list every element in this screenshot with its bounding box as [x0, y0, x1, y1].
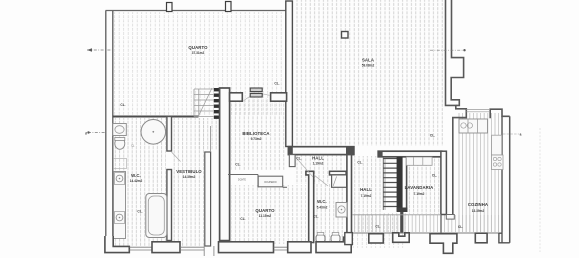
chase white foot	[446, 215, 454, 220]
svg-text:CL.: CL.	[430, 134, 435, 138]
quarto11 door leaf	[296, 157, 314, 177]
svg-text:HALL: HALL	[312, 156, 324, 161]
bottom window B	[180, 247, 204, 250]
svg-text:CL.: CL.	[274, 82, 279, 86]
svg-text:d: d	[85, 132, 87, 136]
lavandaria bottom line	[352, 214, 441, 216]
svg-text:CL.: CL.	[120, 103, 125, 107]
wc543 right wall (white core band)	[347, 155, 352, 233]
svg-text:CL.: CL.	[240, 217, 245, 221]
section line right	[430, 49, 465, 51]
terrace pier 1	[369, 234, 384, 243]
terrace pier 4	[475, 233, 487, 243]
bathroom top wall	[113, 116, 199, 118]
stairs lower dark band	[397, 157, 403, 212]
floor texture cozinha	[457, 113, 503, 232]
bathtub	[146, 194, 167, 238]
biblioteca top wall bar A (white core)	[230, 93, 243, 101]
bottom pier C	[219, 242, 274, 253]
svg-text:HALL: HALL	[360, 187, 372, 192]
svg-text:LAVANDARIA: LAVANDARIA	[405, 185, 434, 190]
svg-text:59.08m2: 59.08m2	[362, 64, 375, 68]
wc543 sink	[336, 203, 347, 218]
bottom pier D	[288, 242, 311, 253]
bathroom big round basin	[141, 120, 166, 145]
floor texture below stairs	[383, 213, 406, 232]
floor texture hall119 band	[294, 155, 345, 184]
stairs wall stem to pier	[400, 212, 403, 233]
bathroom/vestibulo wall (white core, door gap)	[167, 117, 172, 152]
svg-text:7.19m2: 7.19m2	[361, 194, 372, 198]
svg-text:CL.: CL.	[432, 174, 437, 178]
svg-text:QUARTO: QUARTO	[188, 45, 208, 50]
wc543 toilet and bidet	[316, 235, 325, 243]
wc543 shower	[332, 175, 347, 187]
vestibulo right wall (double)	[205, 152, 211, 246]
section line left top	[87, 49, 112, 51]
svg-text:COZINHA: COZINHA	[468, 202, 488, 207]
corridor top wall right (white core with cap)	[378, 151, 442, 157]
stairs upper diagonal	[198, 88, 212, 117]
lavandaria right wall (white core band)	[441, 151, 447, 214]
kitchen counters	[459, 119, 488, 133]
kitchen top-right wall lines	[490, 109, 510, 118]
floor texture corridor to biblioteca	[198, 118, 218, 150]
svg-text:a: a	[520, 133, 522, 137]
floor texture wc543	[313, 184, 346, 244]
floor texture hall corridor	[352, 156, 383, 232]
svg-text:11.15m2: 11.15m2	[259, 214, 272, 218]
svg-text:QUARTO: QUARTO	[255, 208, 275, 213]
svg-text:SALA: SALA	[362, 58, 374, 63]
svg-text:BIBLIOTECA: BIBLIOTECA	[242, 131, 269, 136]
top wall post 2	[226, 2, 232, 12]
hall119 small closet box	[289, 155, 295, 167]
svg-text:CL.: CL.	[458, 225, 463, 229]
svg-text:W.C.: W.C.	[131, 173, 141, 178]
wall QUARTO/SALA (double with white core)	[286, 1, 293, 147]
SALA right wall and kitchen chase (thin lines)	[446, 0, 467, 219]
svg-text:CL.: CL.	[296, 157, 301, 161]
wc543 door leaf	[314, 175, 328, 186]
svg-text:9.73m2: 9.73m2	[251, 137, 262, 141]
floor texture vestibulo	[172, 118, 204, 246]
bathroom toilet	[115, 138, 125, 150]
bathroom left fixture column	[114, 172, 126, 239]
svg-text:14.42m2: 14.42m2	[130, 179, 143, 183]
floor texture lavandaria	[407, 157, 440, 214]
kitchen tall cabinet column	[492, 135, 502, 155]
svg-text:37.31m2: 37.31m2	[192, 51, 205, 55]
quarto11/wc wall T pier (white core)	[306, 171, 314, 242]
bottom window A	[129, 247, 152, 250]
bottom window C	[274, 247, 288, 250]
svg-text:1.19m2: 1.19m2	[313, 162, 324, 166]
floor texture biblioteca	[231, 98, 285, 170]
bottom pier B	[152, 242, 180, 253]
leader a right	[503, 133, 519, 135]
svg-text:CL.: CL.	[235, 163, 240, 167]
top wall post 1	[167, 3, 173, 12]
svg-text:5.43m2: 5.43m2	[317, 206, 328, 210]
biblioteca left wall (white core band)	[220, 88, 230, 241]
stairs upper step notches on wall	[214, 88, 220, 119]
biblioteca top wall bar B (white core)	[271, 93, 287, 101]
bathroom sink top-left	[113, 124, 127, 136]
wc543 top wall bar (white core)	[330, 171, 347, 175]
wc543 wall white foot	[345, 233, 353, 245]
floor texture terrace below line	[352, 233, 404, 248]
entrance door jambs	[204, 246, 214, 256]
svg-text:CL.: CL.	[375, 225, 380, 229]
floor texture QUARTO big	[114, 12, 284, 115]
floor texture terrace bottom	[352, 215, 504, 232]
bathroom small cabinet	[114, 159, 127, 169]
section line left d	[88, 132, 106, 134]
floor texture SALA	[294, 0, 444, 146]
terrace pier 2	[393, 233, 410, 243]
svg-text:W.C.: W.C.	[317, 199, 327, 204]
roupeiro closet box	[258, 176, 283, 187]
svg-text:13.39m2: 13.39m2	[472, 209, 485, 213]
kitchen door thin lines	[466, 110, 490, 112]
svg-text:DCHTE: DCHTE	[238, 180, 246, 182]
stairs lower right: rails	[382, 157, 384, 210]
corridor wall left bar (white core with caps)	[288, 147, 354, 155]
kitchen right wall (double)	[501, 116, 503, 243]
svg-text:14.39m2: 14.39m2	[183, 175, 196, 179]
svg-text:CL.: CL.	[357, 161, 362, 165]
stairs right wall white core	[406, 157, 408, 212]
floor texture quarto11	[231, 185, 306, 244]
bottom-left corner pier	[105, 236, 129, 253]
terrace edge line	[352, 232, 499, 234]
svg-text:7.19m2: 7.19m2	[414, 192, 425, 196]
svg-text:CL.: CL.	[131, 146, 135, 148]
top wall of QUARTO	[106, 10, 287, 12]
closet row: dchte line	[228, 175, 258, 188]
svg-text:CL.: CL.	[137, 210, 142, 214]
kitchen SE corner foot	[499, 233, 510, 243]
equipment boxes AQS/CIL	[250, 88, 262, 92]
faint scan fold line	[539, 128, 541, 252]
bathroom door leaf	[172, 152, 181, 162]
bottom pier E	[316, 237, 351, 252]
svg-text:ROUPEIRO: ROUPEIRO	[264, 182, 276, 184]
stairs lower treads	[383, 159, 399, 207]
svg-text:VESTIBULO: VESTIBULO	[176, 169, 202, 174]
floor texture bathroom WC14	[114, 118, 166, 246]
column in SALA	[342, 32, 349, 39]
terrace pier 3 T-shape	[430, 234, 457, 254]
lavandaria counter with washer boxes	[406, 157, 432, 165]
left outer wall (double line)	[105, 11, 107, 252]
stairs upper: treads	[194, 89, 214, 117]
kitchen stove	[492, 155, 504, 170]
svg-text:CL.: CL.	[313, 215, 318, 219]
stairs bottom cap	[397, 208, 408, 213]
biblioteca door arc	[244, 94, 271, 101]
